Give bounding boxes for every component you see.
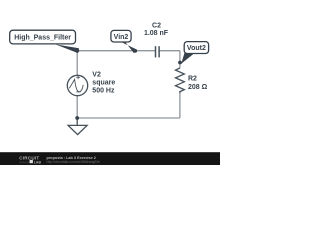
R2 labels [188,76,208,91]
wire: right vertical corner to R2 top [179,51,181,68]
label flag Vout2 [181,42,208,64]
label flag High_Pass_Filter [10,30,79,53]
node junction dot (bottom rail / ground) [75,116,79,120]
ground [68,118,87,135]
resistor R2 [176,68,185,93]
svg-text:Vout2: Vout2 [187,45,206,52]
svg-text:square: square [92,79,115,86]
wire: V2 bottom down to bottom rail [76,96,78,119]
capacitor C2 [156,46,160,57]
svg-text:1.08 nF: 1.08 nF [144,30,169,37]
voltage source V2 [67,75,87,95]
svg-text:V2: V2 [92,71,101,78]
V2 plus sign [76,76,80,80]
svg-text:High_Pass_Filter: High_Pass_Filter [14,35,71,42]
svg-text:http://circuitlab.com/c/e388éa: http://circuitlab.com/c/e388éang02e [47,160,101,164]
svg-text:R2: R2 [188,76,197,83]
svg-text:Vin2: Vin2 [114,34,129,41]
wire: R2 bottom to bottom rail corner [179,93,181,118]
svg-text:LAB: LAB [34,160,42,164]
V2 waveform glyph [69,79,83,91]
svg-text:500 Hz: 500 Hz [92,87,115,94]
svg-text:208 Ω: 208 Ω [188,84,208,91]
label flag Vin2 [111,30,137,53]
footer CircuitLab logo [19,156,41,165]
wire top: node A to capacitor left plate [77,50,155,52]
node junction dot (node A at High_Pass_Filter tip) [75,49,79,53]
V2 labels [92,71,115,94]
svg-text:C2: C2 [152,22,161,29]
wire bottom rail [77,117,180,119]
V2 minus sign [76,91,80,93]
wire top right: capacitor right plate to corner [159,50,180,52]
footer bar [0,152,220,165]
node junction dot (Vin2 tap) [133,49,137,53]
wire: node A down to V2 top [76,51,78,76]
svg-text:∿∿∿∿: ∿∿∿∿ [19,160,31,164]
node junction dot (Vout2 tap) [178,61,182,65]
capacitor C2 value labels [144,22,169,36]
